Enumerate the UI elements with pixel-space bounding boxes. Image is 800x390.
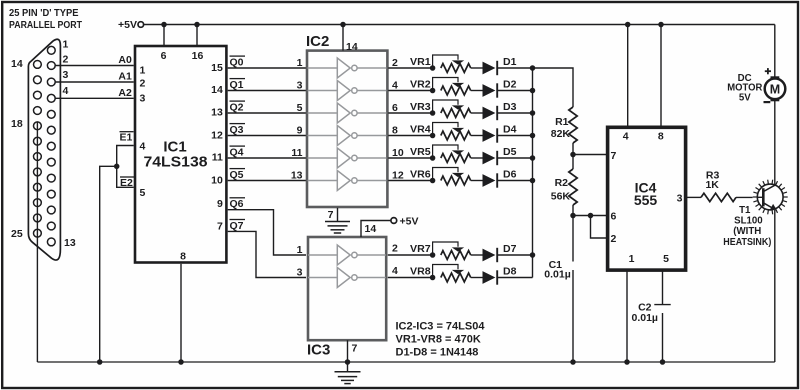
wire: IC4 pin 4 to +5V rail	[627, 25, 629, 128]
inverter gate IC2 N3	[308, 103, 387, 123]
+5V terminal at IC3 pin 14	[361, 215, 418, 237]
resistor VR1 preset 470K	[410, 55, 483, 72]
node: rail junction IC4 pin 1	[624, 359, 630, 365]
wire: port pin 3 to IC1 A1 (pin 2)	[55, 69, 134, 82]
node: rail junction enable ground	[97, 359, 103, 365]
wire: D4 cathode to summing bus	[497, 135, 533, 137]
wire: E1 enable loop to E2 (IC1 pins 4,5)	[117, 132, 134, 189]
resistor VR2 preset 470K	[410, 78, 483, 95]
resistor VR7 preset 470K	[410, 242, 483, 259]
svg-text:VR3: VR3	[410, 101, 431, 113]
svg-text:13: 13	[64, 237, 76, 249]
svg-text:SL100: SL100	[734, 216, 763, 227]
diode D6 1N4148	[483, 169, 517, 188]
svg-text:Q4: Q4	[230, 146, 244, 158]
resistor R3 1K	[701, 169, 753, 201]
diode D3 1N4148	[483, 101, 517, 120]
svg-text:D5: D5	[503, 146, 517, 158]
resistor VR5 preset 470K	[410, 145, 483, 162]
svg-text:Q5: Q5	[230, 169, 244, 181]
svg-text:D8: D8	[503, 266, 517, 278]
svg-text:1: 1	[63, 38, 69, 50]
svg-text:7: 7	[352, 343, 358, 355]
svg-text:D2: D2	[503, 79, 517, 91]
wire: IC1 Q7 output to IC3 pin 3	[228, 220, 306, 279]
wire: IC1 Q0 output to IC2 pin 1	[228, 56, 306, 69]
svg-text:D4: D4	[503, 124, 517, 136]
svg-text:11: 11	[291, 147, 302, 159]
node: rail junction IC4 pin 4	[625, 22, 631, 28]
svg-text:8: 8	[180, 251, 186, 263]
svg-text:5: 5	[297, 102, 303, 114]
resistor VR6 preset 470K	[410, 168, 483, 185]
wire: inverter output to VR8	[388, 265, 433, 278]
wire: IC1 Q5 output to IC2 pin 13	[228, 169, 306, 182]
label: component value notes	[396, 320, 486, 358]
svg-text:9: 9	[217, 198, 223, 210]
wire: inverter output to VR5	[388, 147, 432, 159]
wire: port ground pins 18-25 tie to rail	[36, 122, 38, 362]
wire: +5V top rail	[144, 24, 775, 26]
svg-text:3: 3	[297, 267, 303, 279]
svg-text:10: 10	[392, 147, 404, 159]
op-amp IC3 74LS04 inverters	[307, 223, 386, 358]
svg-text:1K: 1K	[705, 179, 719, 191]
svg-text:T1: T1	[739, 205, 751, 216]
svg-text:12: 12	[392, 170, 404, 182]
node: bus junction D2	[530, 88, 536, 94]
svg-text:VR4: VR4	[410, 124, 431, 136]
node: rail junction IC3 pin 7	[345, 359, 351, 365]
op IC1 74LS138 decoder	[135, 46, 226, 263]
svg-text:56K: 56K	[551, 190, 571, 202]
svg-text:Q0: Q0	[230, 56, 244, 68]
inverter gate IC2 N5	[308, 148, 387, 168]
svg-text:IC2-IC3 = 74LS04: IC2-IC3 = 74LS04	[396, 320, 486, 332]
svg-text:2: 2	[611, 233, 617, 245]
wire: junction to IC4 pin 7	[573, 154, 607, 156]
wire: +5V rail drop to motor positive	[774, 25, 776, 77]
svg-text:8: 8	[392, 125, 398, 137]
svg-text:14: 14	[365, 223, 377, 235]
resistor VR8 preset 470K	[410, 265, 483, 282]
label: 25 pin D type parallel port title	[9, 7, 82, 31]
wire: IC3 pin 7 to ground rail	[348, 340, 358, 362]
svg-text:1: 1	[297, 57, 303, 69]
inverter gate IC3 N8	[308, 268, 386, 288]
node: R1/R2 junction to IC4 pin 7	[570, 152, 576, 158]
svg-text:0.01µ: 0.01µ	[544, 268, 571, 280]
svg-text:4: 4	[392, 265, 398, 277]
svg-text:Q6: Q6	[230, 198, 244, 210]
svg-text:Q2: Q2	[230, 101, 244, 113]
svg-text:HEATSINK): HEATSINK)	[723, 237, 771, 248]
wire: D1 cathode to summing bus	[497, 67, 533, 69]
svg-text:E2: E2	[120, 177, 133, 189]
wire: junction to IC4 pin 6	[573, 215, 607, 217]
node: VR2 input junction	[430, 88, 436, 94]
svg-text:3: 3	[63, 69, 69, 81]
node: VR1 input junction	[430, 65, 436, 71]
wire: inverter output to VR2	[388, 80, 432, 92]
node: rail junction C1	[570, 359, 576, 365]
wire: inverter output to VR6	[388, 170, 432, 182]
svg-text:R1: R1	[555, 116, 569, 128]
svg-text:14: 14	[11, 58, 23, 70]
svg-text:6: 6	[611, 210, 617, 222]
svg-text:1: 1	[297, 244, 303, 256]
node: R2/C1 junction to IC4 pin 6	[570, 213, 576, 219]
wire: D8 branch up to bus	[532, 255, 534, 278]
svg-text:D7: D7	[503, 243, 517, 255]
svg-text:4: 4	[63, 85, 69, 97]
wire: IC1 Q2 output to IC2 pin 5	[228, 101, 306, 114]
wire: ground rail	[37, 361, 774, 363]
svg-text:D1-D8 = 1N4148: D1-D8 = 1N4148	[396, 347, 479, 359]
svg-text:VR7: VR7	[410, 243, 431, 255]
node: VR6 input junction	[430, 178, 436, 184]
node: E1/E2 tie junction	[114, 164, 120, 170]
node: rail junction IC4 pin 8	[658, 22, 664, 28]
wire: T1 emitter to ground rail	[774, 210, 776, 362]
wire: IC1 Q4 output to IC2 pin 11	[228, 146, 306, 159]
svg-text:14: 14	[211, 84, 223, 96]
svg-text:12: 12	[211, 130, 223, 142]
motor M1 DC motor 5V	[727, 68, 785, 104]
node: pin6/pin2 tie junction	[588, 213, 594, 219]
op-amp IC2 74LS04 hex inverter	[306, 33, 387, 207]
node: bus junction D6	[530, 178, 536, 184]
svg-text:6: 6	[161, 50, 167, 62]
resistor R2 56K	[551, 155, 577, 216]
svg-text:18: 18	[11, 118, 23, 130]
svg-text:4: 4	[623, 130, 629, 142]
svg-text:D3: D3	[503, 101, 517, 113]
wire: port pin 4 to IC1 A2 (pin 3)	[55, 85, 134, 99]
svg-text:5: 5	[140, 187, 146, 199]
svg-text:2: 2	[140, 78, 146, 90]
svg-text:15: 15	[211, 62, 223, 74]
svg-text:D6: D6	[503, 169, 517, 181]
svg-text:5V: 5V	[739, 93, 751, 104]
diode D7 1N4148	[483, 243, 517, 262]
connector CON1 25-pin D-type parallel port	[11, 38, 76, 260]
svg-text:3: 3	[677, 192, 683, 204]
wire: D3 cathode to summing bus	[497, 112, 533, 114]
ground: IC2 pin 7	[325, 208, 350, 233]
wire: IC1 pin 16 to +5V rail	[196, 25, 198, 47]
wire: D5 cathode to summing bus	[497, 157, 533, 159]
wire: IC4 pin 8 to +5V rail	[660, 25, 662, 128]
svg-text:5: 5	[663, 253, 669, 265]
svg-text:0.01µ: 0.01µ	[632, 312, 659, 324]
svg-text:25: 25	[11, 228, 23, 240]
resistor VR3 preset 470K	[410, 100, 483, 117]
wire: inverter output to VR4	[388, 125, 432, 137]
wire: IC1 Q1 output to IC2 pin 3	[228, 79, 306, 92]
diode D2 1N4148	[483, 79, 517, 98]
svg-text:VR1: VR1	[410, 56, 431, 68]
svg-text:25 PIN 'D' TYPE: 25 PIN 'D' TYPE	[9, 7, 79, 19]
ground: main ground symbol	[335, 362, 361, 384]
svg-text:16: 16	[192, 50, 204, 62]
wire: IC4 pin 1 to ground rail	[626, 271, 628, 363]
svg-text:10: 10	[211, 175, 223, 187]
svg-text:Q3: Q3	[230, 124, 244, 136]
wire: enable junction to ground rail	[100, 166, 117, 362]
svg-text:3: 3	[140, 92, 146, 104]
svg-text:11: 11	[212, 152, 223, 164]
node: VR3 input junction	[430, 110, 436, 116]
svg-text:A1: A1	[118, 71, 132, 83]
node: rail junction IC1 pin 16	[194, 22, 200, 28]
svg-text:7: 7	[611, 150, 617, 162]
node: VR7 input junction	[430, 252, 436, 258]
svg-text:13: 13	[211, 106, 223, 118]
svg-text:R2: R2	[555, 177, 569, 189]
capacitor C2 0.01u on IC4 pin 5	[632, 271, 671, 363]
op IC4 555 timer	[608, 127, 686, 270]
svg-text:Q1: Q1	[230, 79, 244, 91]
wire: D7 cathode to summing bus	[497, 254, 533, 256]
svg-text:IC2: IC2	[306, 33, 329, 50]
wire: port pin 2 to IC1 A0 (pin 1)	[55, 54, 134, 66]
node: VR4 input junction	[430, 133, 436, 139]
wire: inverter output to VR3	[388, 102, 432, 114]
wire: diode summing bus	[532, 68, 534, 255]
svg-text:VR1-VR8 = 470K: VR1-VR8 = 470K	[396, 334, 481, 346]
svg-text:A2: A2	[118, 87, 132, 99]
svg-text:3: 3	[297, 80, 303, 92]
svg-text:9: 9	[297, 125, 303, 137]
svg-text:M: M	[770, 83, 780, 97]
wire: IC1 pin 8 to ground rail	[180, 264, 182, 362]
svg-text:+5V: +5V	[118, 19, 137, 31]
svg-text:13: 13	[291, 170, 303, 182]
node: VR8 input junction	[430, 275, 436, 281]
wire: T1 collector to motor	[774, 101, 776, 185]
svg-text:VR8: VR8	[410, 266, 431, 278]
node: bus junction D5	[530, 155, 536, 161]
wire: bus to R1 top	[533, 68, 574, 107]
svg-text:1: 1	[140, 65, 146, 77]
svg-text:PARALLEL PORT: PARALLEL PORT	[9, 19, 82, 31]
node: rail junction IC2 pin 14	[340, 22, 346, 28]
svg-text:1: 1	[629, 253, 635, 265]
svg-text:4: 4	[140, 141, 146, 153]
node: rail junction IC1 pin 8	[178, 359, 184, 365]
wire: IC4 pin 3 to R3	[687, 196, 701, 198]
diode D5 1N4148	[483, 146, 517, 165]
inverter gate IC2 N2	[308, 81, 387, 101]
node: bus junction D1	[530, 65, 536, 71]
diode D1 1N4148	[483, 56, 517, 75]
resistor VR4 preset 470K	[410, 123, 483, 140]
+5V supply terminal	[118, 19, 144, 31]
wire: D2 cathode to summing bus	[497, 90, 533, 92]
svg-text:82K: 82K	[551, 128, 571, 140]
svg-text:4: 4	[392, 80, 398, 92]
node: bus junction D4	[530, 133, 536, 139]
svg-text:+5V: +5V	[400, 215, 419, 227]
svg-text:IC3: IC3	[307, 341, 330, 358]
svg-text:E1: E1	[120, 132, 133, 144]
svg-text:VR6: VR6	[410, 169, 431, 181]
wire: IC1 pin 6 to +5V rail	[163, 25, 165, 47]
svg-text:Q7: Q7	[230, 220, 244, 232]
wire: IC2 pin 14 to +5V rail	[342, 25, 344, 51]
svg-text:2: 2	[63, 54, 69, 66]
svg-text:6: 6	[392, 102, 398, 114]
svg-text:7: 7	[217, 221, 223, 233]
node: rail junction C2	[660, 359, 666, 365]
node: bus junction D3	[530, 110, 536, 116]
svg-text:8: 8	[658, 130, 664, 142]
wire: inverter output to VR1	[388, 57, 432, 69]
resistor R1 82K	[551, 107, 577, 155]
svg-text:2: 2	[392, 57, 398, 69]
wire: inverter output to VR7	[388, 242, 433, 255]
svg-text:A0: A0	[118, 54, 132, 66]
svg-text:74LS138: 74LS138	[144, 153, 208, 170]
inverter gate IC2 N6	[308, 171, 387, 191]
inverter gate IC3 N7	[308, 245, 386, 265]
diode D4 1N4148	[483, 124, 517, 143]
svg-text:555: 555	[634, 192, 658, 208]
inverter gate IC2 N1	[308, 58, 387, 78]
svg-text:2: 2	[392, 242, 398, 254]
wire: D8 cathode to summing bus	[497, 277, 533, 279]
wire: D6 cathode to summing bus	[497, 180, 533, 182]
diode D8 1N4148	[483, 266, 517, 285]
node: rail junction IC1 pin 6	[161, 22, 167, 28]
transistor T1 SL100 with heatsink	[723, 180, 787, 248]
wire: IC1 Q3 output to IC2 pin 9	[228, 124, 306, 137]
capacitor C1 0.01u	[544, 216, 573, 363]
inverter gate IC2 N4	[308, 126, 387, 146]
svg-text:VR5: VR5	[410, 146, 431, 158]
wire: IC1 Q6 output to IC3 pin 1	[228, 198, 306, 256]
svg-text:7: 7	[328, 209, 334, 221]
wire: tie to IC4 pin 2	[591, 216, 607, 239]
svg-text:D1: D1	[503, 56, 517, 68]
svg-text:14: 14	[346, 41, 358, 53]
svg-text:(WITH: (WITH	[733, 226, 761, 237]
node: bus junction D7	[530, 252, 536, 258]
node: VR5 input junction	[430, 155, 436, 161]
svg-text:VR2: VR2	[410, 79, 431, 91]
